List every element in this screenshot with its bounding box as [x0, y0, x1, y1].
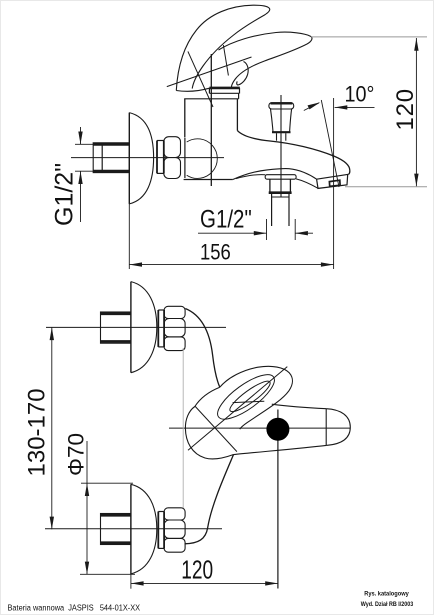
120 bottom dimension [131, 582, 278, 584]
lower pipe [101, 514, 131, 545]
handle inner ellipse [227, 377, 274, 416]
body cap [209, 87, 239, 90]
diverter knob [269, 103, 294, 109]
aerator (tilted) [317, 174, 348, 188]
svg-text:130-170: 130-170 [24, 388, 51, 476]
svg-text:Φ70: Φ70 [63, 433, 88, 476]
upper pipe [101, 312, 131, 343]
faint body edge [182, 348, 184, 509]
valve seat circle [187, 139, 218, 179]
svg-text:10°: 10° [345, 83, 375, 107]
upper nut 3 facets [164, 306, 185, 318]
svg-text:Bateria wannowa JASPIS 544-: Bateria wannowa JASPIS 544-01X-XX [8, 603, 141, 613]
handle base bottom [176, 88, 209, 91]
construction line B [167, 57, 252, 87]
wire: vertical centerline of diverter/outlet [280, 95, 282, 197]
body left edge [184, 99, 186, 138]
union nut (side view, 2 facets) [164, 137, 181, 158]
construction line C [223, 45, 228, 75]
spout (plan) [272, 404, 326, 409]
phi70 dimension [86, 441, 88, 574]
handle beak [237, 62, 248, 85]
vertical line through outlet dot [277, 410, 279, 589]
main horizontal centerline [169, 427, 350, 429]
cross line [195, 406, 237, 451]
construction line A [188, 51, 213, 107]
G1/2 left: extension lines [75, 143, 99, 145]
156 dimension [128, 204, 130, 269]
handle blade 1 (upper) [176, 5, 269, 90]
wire: horizontal centerline of wall union [71, 157, 224, 159]
shower outlet below spout [265, 175, 296, 180]
lower nut 3 facets [164, 508, 185, 520]
long diagonal [188, 367, 287, 451]
handle blade 2 (grip) [219, 32, 312, 87]
lower ring [157, 512, 159, 549]
neck lower [185, 454, 234, 543]
body blob outline [185, 387, 233, 459]
G1/2 bottom dimension [266, 219, 268, 240]
handle middle ellipse [211, 367, 280, 426]
upper ring [157, 310, 159, 347]
10 degree dimension [321, 100, 339, 187]
spout top edge [237, 131, 349, 175]
neck upper [185, 309, 220, 388]
body right edge [236, 99, 238, 131]
svg-text:Rys. katalogowy: Rys. katalogowy [364, 591, 409, 597]
inlet pipe G1/2 (side view) [93, 143, 129, 173]
svg-text:120: 120 [181, 556, 213, 584]
small line in handle [233, 401, 265, 402]
svg-text:G1/2": G1/2" [200, 205, 252, 233]
svg-text:156: 156 [200, 240, 231, 265]
body bottom line [184, 179, 233, 181]
upper flange [130, 282, 132, 373]
handle outer (plan) [220, 366, 293, 429]
svg-text:Wyd. Dział RB I/2003: Wyd. Dział RB I/2003 [361, 602, 414, 608]
centerline upper union [46, 326, 226, 328]
G1/2 left: dimension line + arrows [80, 127, 82, 144]
union ring [156, 141, 158, 174]
130-170 dimension [51, 327, 53, 529]
svg-text:G1/2": G1/2" [51, 163, 79, 226]
wall flange (side view) [128, 113, 130, 204]
outlet dot [266, 418, 289, 441]
svg-text:120: 120 [392, 88, 419, 130]
lower flange [130, 484, 132, 574]
spout underside ridge [233, 169, 317, 180]
120 right dimension [311, 36, 427, 38]
wire: vertical centerline of cartridge [210, 54, 212, 186]
centerline lower union [45, 528, 222, 530]
